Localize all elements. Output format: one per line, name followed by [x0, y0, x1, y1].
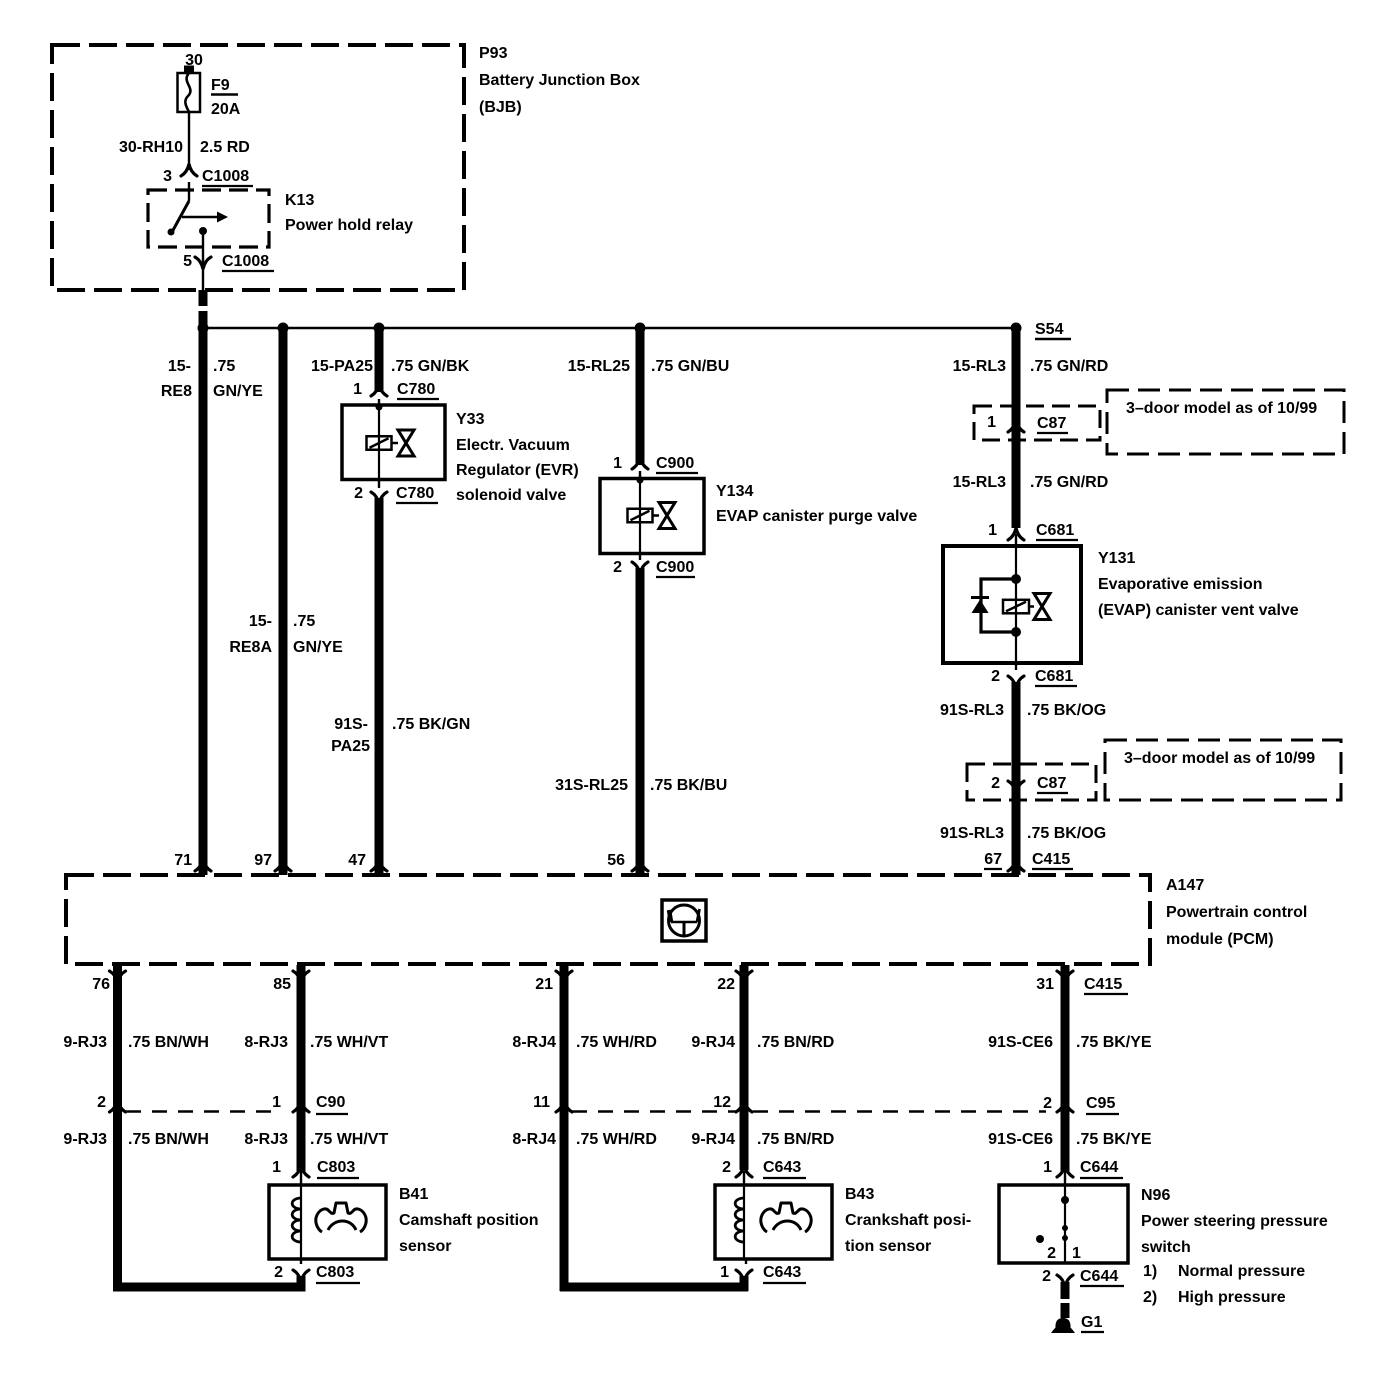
svg-text:C900: C900: [656, 559, 694, 576]
svg-text:.75 WH/RD: .75 WH/RD: [576, 1034, 657, 1051]
svg-text:31: 31: [1036, 976, 1054, 993]
svg-text:9-RJ3: 9-RJ3: [63, 1131, 107, 1148]
svg-text:.75 GN/BK: .75 GN/BK: [391, 358, 470, 375]
svg-text:2: 2: [991, 775, 1000, 792]
svg-text:B43: B43: [845, 1186, 874, 1203]
svg-text:C87: C87: [1037, 775, 1066, 792]
svg-text:76: 76: [92, 976, 110, 993]
svg-text:15-PA25: 15-PA25: [311, 358, 373, 375]
svg-text:9-RJ4: 9-RJ4: [691, 1131, 735, 1148]
svg-text:91S-CE6: 91S-CE6: [988, 1034, 1053, 1051]
svg-text:.75 BN/RD: .75 BN/RD: [757, 1034, 834, 1051]
svg-text:N96: N96: [1141, 1187, 1170, 1204]
svg-text:S54: S54: [1035, 321, 1064, 338]
svg-text:2: 2: [613, 559, 622, 576]
svg-text:module (PCM): module (PCM): [1166, 931, 1274, 948]
svg-text:.75 BK/BU: .75 BK/BU: [650, 777, 727, 794]
svg-text:30-RH10: 30-RH10: [119, 139, 183, 156]
svg-text:Evaporative emission: Evaporative emission: [1098, 576, 1263, 593]
svg-text:2: 2: [274, 1264, 283, 1281]
svg-text:31S-RL25: 31S-RL25: [555, 777, 628, 794]
svg-text:A147: A147: [1166, 877, 1204, 894]
svg-text:.75 WH/VT: .75 WH/VT: [310, 1131, 388, 1148]
svg-text:RE8: RE8: [161, 383, 192, 400]
svg-text:Battery Junction Box: Battery Junction Box: [479, 72, 640, 89]
svg-text:C415: C415: [1032, 851, 1070, 868]
svg-text:1: 1: [720, 1264, 729, 1281]
svg-text:.75 BN/RD: .75 BN/RD: [757, 1131, 834, 1148]
svg-text:tion sensor: tion sensor: [845, 1238, 931, 1255]
svg-text:71: 71: [174, 852, 192, 869]
svg-text:G1: G1: [1081, 1314, 1102, 1331]
svg-text:Crankshaft posi-: Crankshaft posi-: [845, 1212, 971, 1229]
svg-text:C780: C780: [397, 381, 435, 398]
svg-text:GN/YE: GN/YE: [293, 639, 343, 656]
svg-text:1: 1: [987, 414, 996, 431]
svg-text:PA25: PA25: [331, 738, 370, 755]
svg-text:85: 85: [273, 976, 291, 993]
svg-text:2: 2: [722, 1159, 731, 1176]
svg-text:3–door model as of 10/99: 3–door model as of 10/99: [1126, 400, 1317, 417]
svg-text:C900: C900: [656, 455, 694, 472]
svg-text:15-: 15-: [249, 613, 272, 630]
svg-text:Electr. Vacuum: Electr. Vacuum: [456, 437, 570, 454]
svg-text:C415: C415: [1084, 976, 1122, 993]
svg-text:91S-RL3: 91S-RL3: [940, 702, 1004, 719]
svg-text:5: 5: [183, 253, 192, 270]
svg-text:2: 2: [991, 668, 1000, 685]
svg-text:1: 1: [613, 455, 622, 472]
svg-text:.75 WH/RD: .75 WH/RD: [576, 1131, 657, 1148]
svg-text:22: 22: [717, 976, 735, 993]
svg-text:.75 GN/RD: .75 GN/RD: [1030, 474, 1108, 491]
svg-text:C643: C643: [763, 1264, 801, 1281]
svg-text:.75: .75: [293, 613, 315, 630]
svg-text:Powertrain control: Powertrain control: [1166, 904, 1307, 921]
svg-text:.75 WH/VT: .75 WH/VT: [310, 1034, 388, 1051]
svg-text:C644: C644: [1080, 1268, 1118, 1285]
svg-text:.75 BN/WH: .75 BN/WH: [128, 1034, 209, 1051]
svg-text:Normal pressure: Normal pressure: [1178, 1263, 1305, 1280]
svg-text:switch: switch: [1141, 1239, 1191, 1256]
svg-text:solenoid valve: solenoid valve: [456, 487, 566, 504]
svg-text:15-RL3: 15-RL3: [953, 358, 1006, 375]
svg-text:3: 3: [163, 168, 172, 185]
svg-text:91S-: 91S-: [334, 716, 368, 733]
svg-text:.75 BK/YE: .75 BK/YE: [1076, 1131, 1152, 1148]
svg-text:C681: C681: [1035, 668, 1073, 685]
svg-text:.75 GN/RD: .75 GN/RD: [1030, 358, 1108, 375]
svg-text:Power hold relay: Power hold relay: [285, 217, 413, 234]
svg-text:.75 BN/WH: .75 BN/WH: [128, 1131, 209, 1148]
svg-text:15-RL3: 15-RL3: [953, 474, 1006, 491]
svg-text:C780: C780: [396, 485, 434, 502]
svg-text:K13: K13: [285, 192, 314, 209]
svg-text:11: 11: [533, 1094, 550, 1111]
svg-text:C643: C643: [763, 1159, 801, 1176]
svg-text:8-RJ4: 8-RJ4: [512, 1131, 556, 1148]
svg-text:C87: C87: [1037, 415, 1066, 432]
svg-text:.75 GN/BU: .75 GN/BU: [651, 358, 729, 375]
svg-text:9-RJ4: 9-RJ4: [691, 1034, 735, 1051]
svg-text:97: 97: [254, 852, 272, 869]
svg-text:Y131: Y131: [1098, 550, 1135, 567]
svg-text:2: 2: [1047, 1245, 1056, 1262]
svg-text:1: 1: [272, 1159, 281, 1176]
svg-text:56: 56: [607, 852, 625, 869]
svg-text:1: 1: [988, 522, 997, 539]
svg-text:91S-RL3: 91S-RL3: [940, 825, 1004, 842]
svg-text:20A: 20A: [211, 101, 241, 118]
svg-text:C1008: C1008: [202, 168, 249, 185]
svg-text:2: 2: [1043, 1095, 1052, 1112]
svg-text:Y134: Y134: [716, 483, 753, 500]
svg-text:.75 BK/GN: .75 BK/GN: [392, 716, 470, 733]
svg-text:.75 BK/YE: .75 BK/YE: [1076, 1034, 1152, 1051]
svg-text:C681: C681: [1036, 522, 1074, 539]
svg-text:C1008: C1008: [222, 253, 269, 270]
svg-text:Camshaft position: Camshaft position: [399, 1212, 539, 1229]
svg-text:.75 BK/OG: .75 BK/OG: [1027, 825, 1106, 842]
svg-text:sensor: sensor: [399, 1238, 451, 1255]
svg-text:1: 1: [272, 1094, 281, 1111]
svg-text:91S-CE6: 91S-CE6: [988, 1131, 1053, 1148]
svg-text:8-RJ3: 8-RJ3: [244, 1131, 288, 1148]
svg-text:47: 47: [348, 852, 366, 869]
svg-text:67: 67: [984, 851, 1002, 868]
svg-text:C95: C95: [1086, 1095, 1115, 1112]
svg-text:15-: 15-: [168, 358, 191, 375]
svg-text:(EVAP) canister vent valve: (EVAP) canister vent valve: [1098, 602, 1299, 619]
svg-text:High pressure: High pressure: [1178, 1289, 1286, 1306]
svg-text:F9: F9: [211, 77, 230, 94]
svg-text:.75 BK/OG: .75 BK/OG: [1027, 702, 1106, 719]
svg-text:9-RJ3: 9-RJ3: [63, 1034, 107, 1051]
svg-text:(BJB): (BJB): [479, 99, 522, 116]
svg-text:1: 1: [353, 381, 362, 398]
svg-text:C803: C803: [316, 1264, 354, 1281]
svg-text:GN/YE: GN/YE: [213, 383, 263, 400]
svg-text:2): 2): [1143, 1289, 1157, 1306]
svg-text:Regulator (EVR): Regulator (EVR): [456, 462, 579, 479]
svg-text:1): 1): [1143, 1263, 1157, 1280]
svg-text:30: 30: [185, 52, 203, 69]
svg-text:.75: .75: [213, 358, 235, 375]
svg-text:Y33: Y33: [456, 411, 485, 428]
svg-text:15-RL25: 15-RL25: [568, 358, 630, 375]
svg-text:21: 21: [535, 976, 553, 993]
svg-text:B41: B41: [399, 1186, 428, 1203]
svg-text:C90: C90: [316, 1094, 345, 1111]
svg-text:2: 2: [354, 485, 363, 502]
svg-text:C803: C803: [317, 1159, 355, 1176]
svg-text:Power steering pressure: Power steering pressure: [1141, 1213, 1328, 1230]
svg-text:8-RJ3: 8-RJ3: [244, 1034, 288, 1051]
svg-text:C644: C644: [1080, 1159, 1118, 1176]
svg-text:8-RJ4: 8-RJ4: [512, 1034, 556, 1051]
svg-text:P93: P93: [479, 45, 508, 62]
svg-text:1: 1: [1072, 1245, 1081, 1262]
svg-text:EVAP canister purge valve: EVAP canister purge valve: [716, 508, 917, 525]
svg-text:1: 1: [1043, 1159, 1052, 1176]
svg-text:2: 2: [97, 1094, 106, 1111]
svg-text:12: 12: [713, 1094, 731, 1111]
svg-text:2.5 RD: 2.5 RD: [200, 139, 250, 156]
svg-text:2: 2: [1042, 1268, 1051, 1285]
svg-text:RE8A: RE8A: [229, 639, 272, 656]
svg-text:3–door model as of 10/99: 3–door model as of 10/99: [1124, 750, 1315, 767]
